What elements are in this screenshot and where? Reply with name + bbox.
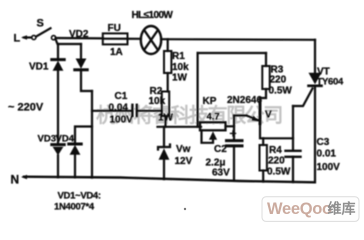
svg-text:C2: C2 <box>214 144 227 155</box>
wire C1 right lead <box>137 110 162 112</box>
fuse FU 1A <box>103 33 128 44</box>
svg-text:100V: 100V <box>317 162 341 173</box>
wire jog to VD4 <box>75 127 92 144</box>
wire node to fuse <box>56 37 103 40</box>
wire R1 to R2 <box>167 73 169 92</box>
wire VD2 bottom jog <box>81 70 92 91</box>
svg-text:220: 220 <box>270 75 287 86</box>
resistor R3 <box>262 66 269 89</box>
svg-text:10k: 10k <box>149 96 166 107</box>
wire loop left edge <box>197 53 199 127</box>
wire VD3 to bus <box>57 155 59 177</box>
svg-text:1W: 1W <box>172 73 188 84</box>
svg-text:12V: 12V <box>175 156 193 167</box>
svg-text:1N4007*4: 1N4007*4 <box>54 202 95 213</box>
wire VT gate <box>293 89 313 107</box>
svg-text:维库: 维库 <box>328 201 356 217</box>
wire UJT emitter <box>234 114 247 116</box>
zener diode Vw <box>163 127 165 147</box>
svg-text:0.01: 0.01 <box>317 149 337 160</box>
svg-text:L: L <box>14 33 21 45</box>
bottom bus wire <box>24 177 313 183</box>
svg-text:S: S <box>37 18 44 30</box>
wire pot left to wiper <box>202 130 214 142</box>
svg-text:0.5W: 0.5W <box>269 86 293 97</box>
wire UJT B1 lead <box>260 124 293 139</box>
svg-text:VD1~VD4:: VD1~VD4: <box>58 191 101 202</box>
wire VD2 top lead <box>80 44 82 58</box>
svg-text:VD2: VD2 <box>69 29 89 40</box>
svg-text:63V: 63V <box>212 168 230 179</box>
svg-text:VD1: VD1 <box>29 62 49 73</box>
svg-text:N: N <box>11 173 20 187</box>
svg-text:HL≤100W: HL≤100W <box>132 10 174 21</box>
switch S <box>32 35 36 39</box>
svg-text:WeeQoo: WeeQoo <box>267 200 332 218</box>
wire mid vertical bus <box>91 91 93 178</box>
wire C1 left lead <box>92 110 132 112</box>
wire VD1 top lead <box>57 44 59 59</box>
wire VD1 to VD3 <box>57 71 59 145</box>
svg-text:2N2646: 2N2646 <box>227 95 262 106</box>
svg-text:0.5W: 0.5W <box>267 167 291 178</box>
svg-text:Vw: Vw <box>176 144 191 155</box>
svg-text:VD3: VD3 <box>38 134 56 145</box>
svg-text:C3: C3 <box>317 137 330 148</box>
wire bridge branch top <box>56 39 82 44</box>
svg-text:R4: R4 <box>269 145 282 156</box>
svg-text:FU: FU <box>108 23 121 34</box>
resistor R4 <box>262 138 264 145</box>
wire top main to right <box>161 38 315 41</box>
wire R2 to 12V rail <box>164 116 166 127</box>
wire right corner down to VT <box>314 40 316 73</box>
watermark WeeQoo box <box>184 197 359 222</box>
wire L to switch <box>24 36 32 38</box>
svg-text:KP: KP <box>203 96 217 107</box>
wire pot right to C2 <box>226 125 234 127</box>
svg-text:100V: 100V <box>110 114 134 125</box>
svg-text:4.7: 4.7 <box>207 112 220 123</box>
resistor R2 <box>162 92 169 117</box>
svg-text:~ 220V: ~ 220V <box>8 102 44 114</box>
wire 12V rail <box>158 126 202 128</box>
svg-text:R1: R1 <box>172 51 185 62</box>
svg-text:TY604: TY604 <box>317 77 345 88</box>
thyristor VT TY604 <box>309 73 322 85</box>
svg-text:10k: 10k <box>172 62 189 73</box>
wire VD4 to bus <box>74 155 76 178</box>
wire R3 top lead <box>265 53 267 66</box>
svg-text:C1: C1 <box>115 91 128 102</box>
wire R3 to UJT B2 <box>260 89 266 103</box>
svg-text:1A: 1A <box>110 47 123 58</box>
svg-text:220: 220 <box>268 156 285 167</box>
svg-text:V: V <box>265 110 272 121</box>
wire loop top edge <box>198 52 266 54</box>
capacitor C3 <box>292 106 294 150</box>
resistor R1 <box>167 39 169 51</box>
capacitor C2 <box>227 139 243 142</box>
lamp HL <box>141 26 161 54</box>
